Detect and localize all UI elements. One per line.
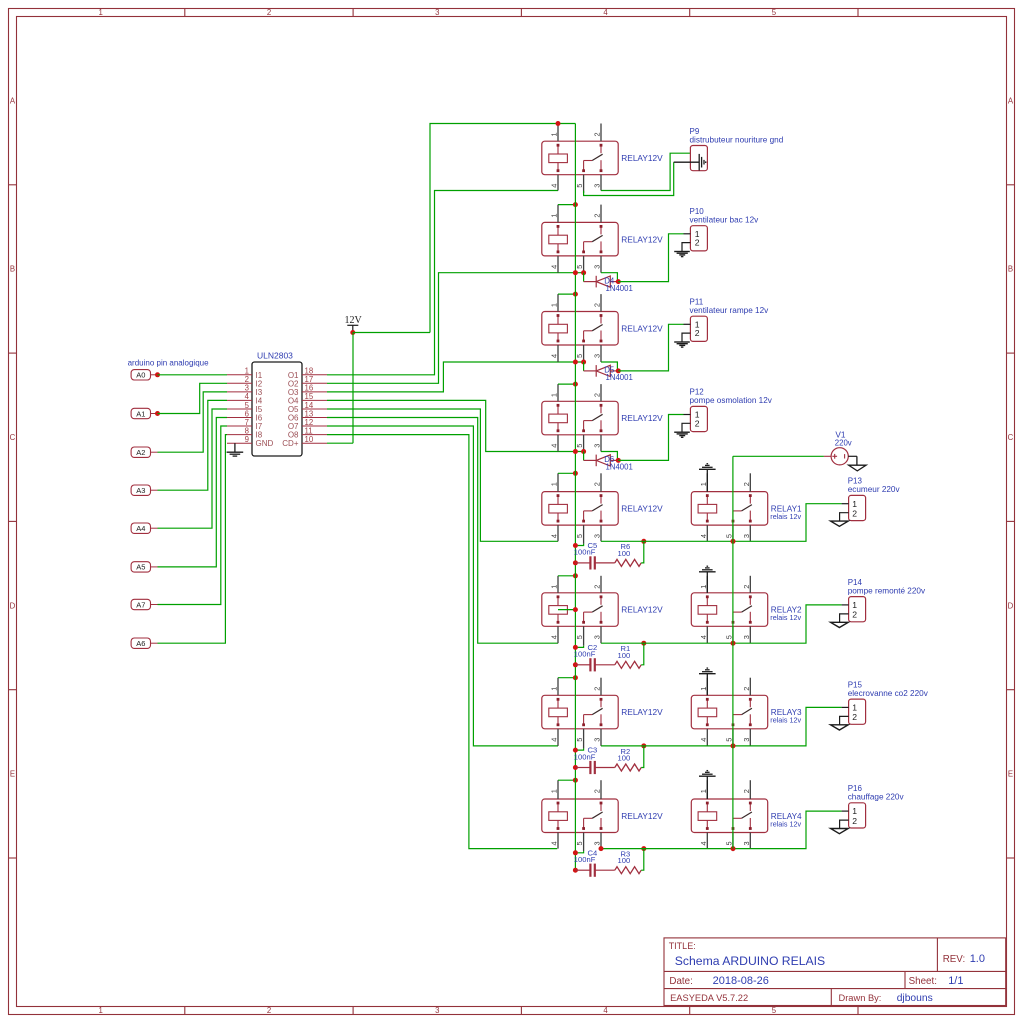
- relay RELAY3 relais 12v: [691, 678, 802, 749]
- P13 pins 1 2: [840, 499, 858, 521]
- svg-text:4: 4: [699, 738, 708, 742]
- svg-text:2: 2: [267, 1006, 271, 1015]
- svg-text:3: 3: [593, 534, 602, 538]
- svg-text:1: 1: [852, 703, 857, 713]
- svg-text:2: 2: [852, 610, 857, 620]
- wire relay K4 pin1 jog: [558, 383, 575, 385]
- wire row 5 pin3 to P13: [601, 504, 842, 542]
- junction snubber branch row 7: [641, 743, 646, 748]
- svg-text:4: 4: [550, 635, 559, 639]
- wire A0 to I1: [158, 374, 228, 376]
- ground of P11: [674, 342, 690, 347]
- svg-text:1: 1: [550, 687, 559, 691]
- svg-text:A0: A0: [136, 371, 145, 380]
- wire relay K2 pin1 jog: [558, 204, 575, 206]
- svg-text:5: 5: [725, 534, 734, 538]
- svg-text:2: 2: [593, 303, 602, 307]
- P15 pins 1 2: [840, 703, 858, 725]
- resistor R2 100: [615, 746, 644, 771]
- svg-text:Date:: Date:: [669, 976, 692, 987]
- ground of P15: [831, 725, 849, 730]
- relay K2 RELAY12V: [542, 205, 663, 276]
- svg-text:4: 4: [550, 738, 559, 742]
- svg-text:10: 10: [305, 435, 314, 444]
- svg-text:2: 2: [593, 132, 602, 136]
- junction rail 12V at K3: [573, 292, 578, 297]
- svg-text:2: 2: [593, 687, 602, 691]
- junction rail at K5 pin5 hook: [573, 543, 578, 548]
- svg-text:5: 5: [575, 635, 584, 639]
- svg-text:1: 1: [550, 303, 559, 307]
- svg-text:relais 12v: relais 12v: [770, 613, 801, 622]
- relay K8 RELAY12V: [542, 780, 663, 851]
- junction rail 12V crossing row 4: [573, 449, 578, 454]
- connector P10 ventilateur bac 12v: [690, 207, 760, 251]
- svg-text:B: B: [10, 265, 15, 274]
- wire A4 to ULN input: [158, 409, 228, 528]
- P10 pins 1 2: [682, 229, 700, 251]
- svg-text:100: 100: [618, 754, 631, 763]
- svg-text:1: 1: [550, 213, 559, 217]
- voltage source V1 220v: [824, 429, 857, 465]
- wire K6 pin5 hook to rail: [575, 646, 583, 648]
- svg-text:3: 3: [593, 841, 602, 845]
- ground earth above RELAY3 pin 1: [699, 668, 716, 695]
- svg-text:A: A: [1008, 96, 1014, 105]
- wire A3 to ULN input: [158, 400, 228, 490]
- wire relay K5 pin1 jog: [558, 472, 575, 474]
- svg-text:1: 1: [852, 806, 857, 816]
- svg-text:5: 5: [575, 841, 584, 845]
- svg-text:RELAY12V: RELAY12V: [621, 707, 663, 717]
- svg-text:RELAY12V: RELAY12V: [621, 605, 663, 615]
- svg-text:2: 2: [695, 328, 700, 338]
- ground of P10: [674, 252, 690, 257]
- wire relay K7 pin1 jog: [558, 677, 575, 679]
- connector A1: [131, 408, 157, 418]
- svg-text:2: 2: [742, 585, 751, 589]
- junction A0 pin: [155, 372, 160, 377]
- svg-text:3: 3: [593, 354, 602, 358]
- wire A5 to ULN input: [158, 418, 228, 567]
- svg-text:4: 4: [550, 444, 559, 448]
- svg-text:arduino pin analogique: arduino pin analogique: [128, 359, 210, 368]
- wire 12V rail: [574, 124, 576, 871]
- wire ULN O4 to relay coil: [327, 400, 584, 451]
- svg-text:1/1: 1/1: [948, 975, 963, 987]
- ground earth above RELAY4 pin 1: [699, 771, 716, 799]
- svg-text:E: E: [10, 770, 15, 779]
- svg-text:9: 9: [245, 435, 249, 444]
- junction snubber branch row 5: [641, 539, 646, 544]
- wire K4 pin5 to diode: [583, 452, 585, 461]
- svg-text:5: 5: [772, 8, 777, 17]
- wire ULN O3 to relay coil: [327, 362, 584, 392]
- svg-text:3: 3: [742, 635, 751, 639]
- relay K7 RELAY12V: [542, 678, 663, 749]
- svg-text:Schema ARDUINO RELAIS: Schema ARDUINO RELAIS: [675, 954, 825, 968]
- svg-text:A5: A5: [136, 563, 145, 572]
- wire K1 pin5 to P9 pin: [584, 162, 674, 195]
- wire A7 to ULN input: [158, 426, 228, 605]
- svg-text:4: 4: [550, 534, 559, 538]
- svg-text:100nF: 100nF: [574, 650, 596, 659]
- svg-text:ventilateur rampe 12v: ventilateur rampe 12v: [690, 306, 770, 315]
- wire K7 pin5 hook to rail: [575, 748, 583, 750]
- junction rail at K7 pin5 hook: [573, 748, 578, 753]
- wire D5 anode to P connector: [618, 324, 683, 371]
- wire A2 to ULN input: [158, 392, 228, 452]
- svg-text:2: 2: [852, 508, 857, 518]
- svg-text:pompe remonté 220v: pompe remonté 220v: [848, 586, 926, 595]
- svg-text:2018-08-26: 2018-08-26: [713, 975, 769, 987]
- wire ULN O6 to relay coil: [327, 418, 558, 644]
- connector A6: [131, 638, 157, 648]
- junction rail 12V at K2: [573, 202, 578, 207]
- svg-text:A4: A4: [136, 524, 145, 533]
- svg-text:chauffage 220v: chauffage 220v: [848, 793, 905, 802]
- svg-text:2: 2: [267, 8, 271, 17]
- svg-text:ecumeur 220v: ecumeur 220v: [848, 485, 901, 494]
- junction rail 12V at K8: [573, 778, 578, 783]
- relay K1 RELAY12V: [542, 124, 663, 194]
- svg-text:100: 100: [618, 651, 631, 660]
- wire K4 pin3 jog to diode anode: [601, 452, 617, 461]
- IC U? ULN2803: [227, 351, 327, 457]
- connector P16 chauffage 220v: [848, 784, 905, 828]
- junction rail 12V at K7: [573, 675, 578, 680]
- P9 pin and symbol: [674, 154, 706, 171]
- svg-text:4: 4: [699, 534, 708, 538]
- junction rail at K6 pin5 hook: [573, 645, 578, 650]
- svg-text:2: 2: [742, 482, 751, 486]
- wire relay K8 pin1 jog: [558, 779, 575, 781]
- svg-text:djbouns: djbouns: [897, 993, 933, 1004]
- svg-text:3: 3: [742, 534, 751, 538]
- svg-text:12V: 12V: [345, 315, 363, 326]
- svg-text:4: 4: [550, 265, 559, 269]
- svg-text:3: 3: [742, 738, 751, 742]
- relay RELAY1 relais 12v: [691, 473, 802, 544]
- wire A1 to ULN input: [158, 383, 228, 413]
- svg-text:RELAY12V: RELAY12V: [621, 811, 663, 821]
- relay K3 RELAY12V: [542, 294, 663, 364]
- svg-text:RELAY12V: RELAY12V: [621, 413, 663, 423]
- svg-text:2: 2: [593, 789, 602, 793]
- svg-text:4: 4: [550, 354, 559, 358]
- svg-text:ventilateur bac 12v: ventilateur bac 12v: [690, 216, 760, 225]
- junction snubber branch row 8: [641, 846, 646, 851]
- title block: [664, 938, 1006, 1006]
- svg-text:REV:: REV:: [943, 954, 966, 965]
- wire 12V riser to relay row 1: [430, 124, 575, 333]
- svg-text:1: 1: [550, 132, 559, 136]
- wire V1 to rail: [733, 455, 824, 457]
- wire 12V flag to riser: [353, 332, 430, 334]
- P16 pins 1 2: [840, 806, 858, 828]
- svg-text:2: 2: [593, 585, 602, 589]
- svg-text:100: 100: [618, 549, 631, 558]
- wire K8 pin5 hook to rail: [575, 851, 583, 853]
- svg-text:RELAY12V: RELAY12V: [621, 504, 663, 514]
- junction row 8 pin3 node: [599, 846, 604, 851]
- junction A1 pin: [155, 411, 160, 416]
- svg-text:5: 5: [575, 738, 584, 742]
- svg-text:5: 5: [575, 444, 584, 448]
- resistor R3 100: [615, 849, 644, 874]
- svg-text:A2: A2: [136, 448, 145, 457]
- svg-text:CD+: CD+: [282, 439, 299, 448]
- P11 pins 1 2: [682, 320, 700, 342]
- connector P12 pompe osmolation 12v: [690, 388, 773, 432]
- wire CD+ pin stub: [327, 442, 353, 444]
- svg-text:3: 3: [435, 8, 439, 17]
- diode D5 1N4001: [584, 365, 633, 382]
- connector A0: [131, 370, 157, 380]
- wire K1 pin3 to P9: [601, 153, 690, 190]
- wire ULN O8 to relay coil: [327, 435, 557, 849]
- connector P13 ecumeur 220v: [848, 477, 901, 521]
- junction rail at K8 pin5 hook: [573, 850, 578, 855]
- svg-text:A1: A1: [136, 409, 145, 418]
- junction relay K1 pin1: [556, 121, 561, 126]
- junction 12V net: [350, 330, 355, 335]
- svg-text:B: B: [1008, 265, 1013, 274]
- svg-text:2: 2: [852, 816, 857, 826]
- connector A3: [131, 485, 157, 495]
- ground of P16: [831, 829, 849, 834]
- junction rail 12V crossing row 3: [573, 360, 578, 365]
- wire K3 pin5 to diode: [583, 362, 585, 371]
- junction rail 12V crossing row 2: [573, 270, 578, 275]
- svg-text:pompe osmolation 12v: pompe osmolation 12v: [690, 396, 773, 405]
- wire row 6 pin3 to P14: [601, 605, 842, 643]
- svg-text:100nF: 100nF: [574, 855, 596, 864]
- junction rail 220v row 7: [731, 743, 736, 748]
- resistor R6 100: [615, 541, 644, 566]
- svg-text:1: 1: [550, 789, 559, 793]
- connector P15 elecrovanne co2 220v: [848, 680, 929, 724]
- svg-text:100nF: 100nF: [574, 752, 596, 761]
- wire 220v rail: [732, 456, 734, 848]
- svg-text:RELAY12V: RELAY12V: [621, 323, 663, 333]
- wire K5 pin5 hook to rail: [575, 544, 583, 546]
- relay K4 RELAY12V: [542, 384, 663, 454]
- svg-text:2: 2: [742, 789, 751, 793]
- svg-text:relais 12v: relais 12v: [770, 819, 801, 828]
- svg-text:1N4001: 1N4001: [606, 463, 633, 472]
- svg-text:5: 5: [725, 841, 734, 845]
- wire ULN O7 to relay coil: [327, 426, 558, 746]
- connector A7: [131, 599, 157, 609]
- junction rail 220v row 8: [731, 846, 736, 851]
- svg-text:3: 3: [435, 1006, 439, 1015]
- svg-text:A6: A6: [136, 639, 145, 648]
- capacitor C3 100nF: [574, 746, 615, 774]
- svg-text:1: 1: [699, 585, 708, 589]
- wire relay K3 pin1 jog: [558, 293, 575, 295]
- wire relay K6 pin1 jog: [558, 575, 575, 577]
- svg-text:1: 1: [699, 789, 708, 793]
- svg-text:1: 1: [99, 8, 103, 17]
- svg-text:4: 4: [603, 8, 608, 17]
- svg-text:4: 4: [699, 841, 708, 845]
- svg-text:1.0: 1.0: [970, 953, 985, 965]
- wire D4 anode to P connector: [618, 234, 683, 282]
- junction pin5 node row 3: [581, 360, 586, 365]
- relay K5 RELAY12V: [542, 473, 663, 544]
- svg-text:relais 12v: relais 12v: [770, 716, 801, 725]
- svg-text:RELAY12V: RELAY12V: [621, 153, 663, 163]
- svg-text:4: 4: [550, 841, 559, 845]
- wire row 8 pin3 to P16: [601, 811, 842, 849]
- wire CD+ to 12V: [352, 333, 354, 444]
- svg-text:Sheet:: Sheet:: [909, 976, 937, 987]
- svg-text:3: 3: [593, 635, 602, 639]
- ground of P14: [831, 622, 849, 627]
- wire K2 pin5 to diode: [583, 273, 585, 282]
- svg-text:A3: A3: [136, 486, 145, 495]
- wire K2 pin3 jog to diode anode: [601, 273, 617, 282]
- svg-text:220v: 220v: [835, 438, 852, 447]
- P12 pins 1 2: [682, 410, 700, 432]
- svg-text:3: 3: [593, 184, 602, 188]
- svg-text:ULN2803: ULN2803: [257, 351, 293, 361]
- junction rail at snubber row 8: [573, 868, 578, 873]
- ground of P13: [831, 521, 849, 526]
- wire ULN O2 to relay coil: [327, 273, 584, 384]
- svg-text:Drawn By:: Drawn By:: [839, 993, 882, 1003]
- svg-text:2: 2: [742, 687, 751, 691]
- ground of P12: [674, 432, 690, 437]
- junction snubber branch row 6: [641, 641, 646, 646]
- svg-text:5: 5: [725, 635, 734, 639]
- svg-text:1: 1: [99, 1006, 103, 1015]
- svg-text:5: 5: [575, 265, 584, 269]
- svg-text:1: 1: [550, 393, 559, 397]
- relay K6 RELAY12V: [542, 576, 663, 646]
- connector A4: [131, 523, 157, 533]
- svg-text:1: 1: [699, 687, 708, 691]
- junction rail at snubber row 6: [573, 662, 578, 667]
- svg-text:1: 1: [852, 499, 857, 509]
- connector P14 pompe remonté 220v: [848, 578, 926, 622]
- wire K6 coil stray jog: [558, 609, 575, 611]
- svg-text:3: 3: [593, 738, 602, 742]
- svg-text:distrubuteur nouriture gnd: distrubuteur nouriture gnd: [690, 135, 784, 144]
- svg-text:TITLE:: TITLE:: [669, 941, 696, 951]
- svg-text:2: 2: [695, 238, 700, 248]
- ground earth above RELAY2 pin 1: [699, 566, 716, 593]
- svg-text:D: D: [10, 601, 16, 610]
- junction rail 12V at K6: [573, 573, 578, 578]
- svg-text:5: 5: [575, 354, 584, 358]
- svg-text:3: 3: [742, 841, 751, 845]
- diode D4 1N4001: [584, 276, 633, 293]
- power flag 12V: [345, 315, 363, 333]
- svg-text:5: 5: [575, 534, 584, 538]
- connector A2: [131, 447, 157, 457]
- junction D6 anode node: [616, 458, 621, 463]
- svg-text:elecrovanne co2 220v: elecrovanne co2 220v: [848, 689, 929, 698]
- svg-text:2: 2: [593, 393, 602, 397]
- svg-text:A7: A7: [136, 600, 145, 609]
- resistor R1 100: [615, 643, 644, 668]
- svg-text:RELAY12V: RELAY12V: [621, 234, 663, 244]
- wire ULN O5 to relay coil: [327, 409, 558, 541]
- svg-text:4: 4: [699, 635, 708, 639]
- svg-text:1N4001: 1N4001: [606, 284, 633, 293]
- junction pin5 node row 2: [581, 270, 586, 275]
- svg-text:3: 3: [593, 444, 602, 448]
- wire ULN O1 to relay coil: [327, 191, 558, 375]
- svg-text:1: 1: [852, 600, 857, 610]
- svg-text:5: 5: [772, 1006, 777, 1015]
- wire K3 pin3 jog to diode anode: [601, 362, 617, 371]
- svg-text:E: E: [1008, 770, 1013, 779]
- capacitor C2 100nF: [574, 643, 615, 671]
- svg-text:relais 12v: relais 12v: [770, 512, 801, 521]
- svg-text:1: 1: [550, 585, 559, 589]
- svg-text:A: A: [10, 96, 16, 105]
- P14 pins 1 2: [840, 600, 858, 622]
- connector A5: [131, 562, 157, 572]
- svg-text:5: 5: [575, 184, 584, 188]
- svg-text:2: 2: [852, 712, 857, 722]
- diode D6 1N4001: [584, 455, 633, 472]
- svg-text:D: D: [1008, 601, 1014, 610]
- relay RELAY2 relais 12v: [691, 576, 802, 646]
- capacitor C5 100nF: [574, 541, 615, 569]
- junction rail at snubber row 5: [573, 560, 578, 565]
- svg-text:100: 100: [618, 856, 631, 865]
- wire D6 anode to P connector: [618, 415, 683, 461]
- wire row 7 pin3 to P15: [601, 707, 842, 746]
- svg-text:5: 5: [725, 738, 734, 742]
- svg-text:2: 2: [695, 418, 700, 428]
- ground earth above RELAY1 pin 1: [699, 464, 716, 492]
- svg-text:2: 2: [593, 213, 602, 217]
- junction rail at K6 stray jog: [573, 607, 578, 612]
- svg-text:4: 4: [550, 184, 559, 188]
- svg-text:GND: GND: [256, 439, 274, 448]
- junction D5 anode node: [616, 368, 621, 373]
- ground GND of ULN2803: [227, 443, 244, 456]
- junction rail 12V at K5: [573, 471, 578, 476]
- capacitor C4 100nF: [574, 848, 615, 876]
- svg-text:1: 1: [550, 482, 559, 486]
- svg-text:1: 1: [699, 482, 708, 486]
- svg-text:C: C: [10, 433, 16, 442]
- junction pin5 node row 4: [581, 449, 586, 454]
- ground of V1: [849, 456, 867, 471]
- svg-text:3: 3: [593, 265, 602, 269]
- connector P11 ventilateur rampe 12v: [690, 298, 770, 342]
- junction rail 220v row 5: [731, 539, 736, 544]
- junction rail at snubber row 7: [573, 765, 578, 770]
- svg-text:100nF: 100nF: [574, 548, 596, 557]
- junction D4 anode node: [616, 279, 621, 284]
- junction rail 220v row 6: [731, 641, 736, 646]
- svg-text:EASYEDA V5.7.22: EASYEDA V5.7.22: [670, 993, 748, 1003]
- svg-text:4: 4: [603, 1006, 608, 1015]
- svg-text:C: C: [1008, 433, 1014, 442]
- junction rail 12V at K4: [573, 382, 578, 387]
- connector P9 distrubuteur nouriture gnd: [690, 127, 784, 171]
- svg-text:2: 2: [593, 482, 602, 486]
- relay RELAY4 relais 12v: [691, 780, 802, 851]
- wire A6 to ULN input: [158, 435, 228, 644]
